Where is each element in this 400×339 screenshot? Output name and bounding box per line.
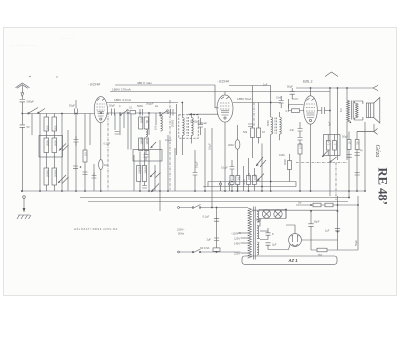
wire AVC dash-dot line left [21,113,23,115]
antenna [16,76,31,93]
svg-text:1MΩ: 1MΩ [279,153,285,157]
wire mid links [140,152,145,192]
svg-text:125V: 125V [234,236,240,240]
svg-text:5000: 5000 [53,140,57,146]
wire left vertical 68 [67,130,69,191]
resistor field coil b [325,203,333,207]
svg-text:25000: 25000 [247,172,251,180]
wire transformer links [347,88,363,160]
trimmer arrows osc [58,144,69,184]
svg-text:4µF: 4µF [328,121,332,126]
svg-text:0,3: 0,3 [84,152,88,156]
switch wave contact mid [120,110,129,116]
box tone network [324,135,341,156]
wire right vertical 349 [348,132,350,198]
wire tube2 top left [224,92,226,95]
svg-text:2µF: 2µF [207,238,212,242]
wire left vertical 76 [75,100,77,191]
svg-text:20000: 20000 [170,119,174,127]
wire right bottom vertical 358 [357,196,359,250]
wire AF ends [208,182,296,187]
tube ECH4 first [94,97,107,123]
lamp dial 2 [274,210,282,218]
capacitor 8uF heater [266,228,275,240]
chevron mark top [325,72,338,77]
wire bottom line y250 [311,249,358,251]
power transformer heater 6.3V [257,226,259,239]
wire heater net [260,240,282,250]
svg-text:16µF: 16µF [314,220,320,224]
svg-text:1000: 1000 [253,174,257,180]
wire det mid vertical [289,99,304,108]
svg-text:50pF: 50pF [69,104,75,108]
tap arrow [237,232,241,234]
wire 4000 links [289,154,291,182]
wire component row line [22,112,176,115]
wire heater links [257,210,286,239]
wire det drops [253,86,259,159]
wire IFT3 links [270,102,280,141]
power transformer HT secondary [257,212,259,222]
node 40 bus [39,190,41,192]
output transformer secondary [356,103,359,118]
node EBL1 bus [310,190,312,192]
svg-text:50k: 50k [243,130,248,134]
resistor tone b [333,141,337,151]
wire short verticals band [115,113,124,135]
svg-text:220V: 220V [234,251,240,255]
svg-text:1M: 1M [104,163,108,167]
coil osc secondary [52,138,57,153]
label 220V 50Hz [177,228,185,236]
resistor det 253 [252,174,256,185]
svg-text:480 V max: 480 V max [137,81,152,85]
wire 205 vertical [204,128,206,191]
coil IFT1 left loops [161,116,163,132]
IFT1 primary loops [182,118,184,136]
wire row drops [149,113,156,135]
svg-text:10000: 10000 [140,137,144,145]
trimmer arrows mid low [150,171,161,178]
wire 149 drop [148,150,150,191]
svg-text:50µF: 50µF [342,135,348,139]
wire coil links [46,114,54,139]
wire 480V max top line [115,85,271,117]
svg-text:5000: 5000 [137,104,143,108]
wire lamp rail bottom [259,218,286,220]
wire dashdot vertical 336 [335,163,337,201]
tube AZ1 rectifier [289,234,302,247]
wire AF line upper [208,181,296,183]
box padder mid [133,150,162,162]
svg-text:5µ: 5µ [360,148,363,152]
IFT1 secondary loops [191,118,193,136]
coil 20000 mid [142,166,147,182]
wire speaker return [357,131,374,133]
IF transformer 1 box dashed [179,115,198,138]
svg-text:0,1µF: 0,1µF [203,215,210,219]
svg-text:5000: 5000 [266,120,270,126]
trimmer arrow mid [151,142,157,148]
coil antenna primary [44,117,49,131]
svg-text:50Hz: 50Hz [178,232,185,236]
wire left vertical 62 [61,114,63,192]
capacitor 2uF mains [207,238,220,242]
svg-text:1µF: 1µF [325,229,330,233]
svg-text:500pF: 500pF [27,100,35,104]
svg-text:1000: 1000 [145,138,149,144]
node band dots [119,112,169,114]
wire det down 271 [270,140,272,191]
ghost dot [56,76,57,77]
wire grid line tube2 [188,113,218,115]
svg-text:763: 763 [318,253,323,257]
wire mains cap vertical [216,208,218,253]
svg-text:2w: 2w [298,201,301,205]
wire osc links [46,153,54,192]
resistor cathode tube1 [99,160,108,170]
wire right bottom vertical 337 [337,196,339,250]
svg-text:· ECH4: · ECH4 [88,83,100,87]
svg-text:2µF: 2µF [272,243,277,247]
switch band contacts [28,108,45,115]
svg-text:0,7M: 0,7M [299,143,303,149]
output transformer primary coil [347,100,350,122]
svg-text:50000: 50000 [138,166,142,174]
wire vertical 195 [194,150,196,191]
svg-text:· ECH4: · ECH4 [217,80,229,84]
capacitor 50uF [287,85,298,100]
wire feedback dash line [296,162,347,164]
svg-text:EBL.1: EBL.1 [303,80,313,84]
capacitor 0.1uF det [221,160,234,175]
wire third bus dashed [88,201,348,203]
svg-text:5·10: 5·10 [231,174,235,180]
wire 262 vertical [261,144,263,192]
wire tube1 cathode down [100,123,102,191]
wire smoothing line y205 [296,201,358,205]
coil antenna secondary [52,117,57,131]
resistor row small [129,106,136,114]
wire left vertical 85 [84,114,86,192]
switch tone [330,157,337,163]
capacitor 10nF [276,96,284,109]
wire antenna down [21,97,23,99]
wire 2M links [237,125,239,191]
wire 180V/170mA HT line [110,91,330,93]
resistor field coil a [313,203,321,207]
svg-text:4000: 4000 [283,159,287,165]
capacitor row 140 [140,109,143,116]
capacitor antenna low [20,125,30,129]
wire antenna to bus [21,127,23,191]
svg-text:0,3: 0,3 [286,109,290,113]
wire lamp rail top [259,210,286,212]
coil shortwave a [44,168,49,185]
wire tube2 cathode [224,122,226,191]
scanned page area [4,28,397,296]
svg-text:0,1µF: 0,1µF [104,142,111,146]
power transformer rectifier winding [257,242,259,255]
capacitor right 357 low [355,173,360,176]
tap 220V [234,251,249,255]
node dots mid [139,190,169,192]
svg-text:RE 48’: RE 48’ [376,168,390,205]
svg-text:1,4: 1,4 [327,141,331,145]
capacitor 1uF right [325,228,340,232]
wire band verticals 128 [128,113,131,150]
wire dashdot 254 [253,103,255,127]
resistor det 237 [236,176,241,185]
capacitor right 357 [355,153,360,156]
svg-text:4nF: 4nF [290,128,295,132]
wire ground drop [23,198,25,208]
svg-text:180V 4,7mA: 180V 4,7mA [114,98,132,102]
capacitor left 85 [83,172,88,175]
fuse SZ 0.5A [200,246,220,251]
wire heater to lamps [260,230,268,232]
svg-text:1nF: 1nF [263,83,268,87]
resistor bottom 763 [317,248,327,257]
resistor 2M oval [228,140,240,150]
svg-text:AZ 1: AZ 1 [288,258,299,263]
wire 212 vertical [211,128,213,208]
resistor anode EBL1 [286,105,304,114]
svg-text:─── ──: ─── ── [59,37,75,41]
wire right vertical 365 [364,122,366,191]
node 330 [329,110,331,112]
capacitor 50pF row [69,104,78,115]
ghost smudge marks top [9,37,75,48]
node dots bottom right [285,204,359,232]
capacitor 2uF heater [266,243,277,250]
wire grid feed heavy [176,104,178,155]
capacitor 0.1 EBL1 [298,138,303,141]
node extra dots [100,112,238,208]
wire AF line lower [203,186,296,188]
box oscillator coils [39,136,63,158]
tube ECH4 second [217,95,233,122]
svg-text:Géza: Géza [374,145,381,158]
wire AZ1 links [282,210,301,250]
wire output top [330,88,338,196]
wire mains bottom line [178,251,241,253]
resistor 50k tube2 [243,128,255,138]
capacitor mid bottom [142,186,147,189]
node dots left [61,113,86,192]
switch mains top [192,205,201,209]
resistor right 357 [355,140,359,150]
speaker [366,98,380,124]
svg-text:20000: 20000 [53,169,57,177]
svg-text:0,1: 0,1 [236,176,240,180]
wire HT secondary to AZ1 [257,212,259,223]
svg-text:0,1µF: 0,1µF [165,138,172,142]
resistor EBL1 grid leak [298,143,303,154]
capacitor 0.005uF left tube2 [190,118,203,135]
wire tone links [328,135,334,156]
tap 125V [234,236,249,240]
svg-text:200: 200 [45,125,49,130]
svg-text:2000: 2000 [140,117,144,123]
wire vertical 90 [89,114,91,146]
IFT1 core dashes [187,117,188,136]
wire screen line y88 [296,85,378,90]
node tube2 bus [224,190,226,192]
capacitor band small [115,132,120,135]
resistor 0.3M left [83,150,88,162]
svg-text:30µµF: 30µµF [146,102,154,106]
resistor 1000 mid [144,138,149,151]
wire antenna cap to row [21,102,23,125]
coil IF1 primary pair [139,117,144,129]
output transformer core [352,101,354,120]
gang arrow det [257,174,264,182]
wire 160 drop [159,140,161,211]
wire right vertical 357 [356,132,358,192]
capacitor in box [144,150,149,162]
resistor 10000 mid [139,137,144,151]
heater pins tube2 [219,181,230,191]
svg-text:~110V: ~110V [231,231,239,235]
capacitor 4nF EBL1 grid [290,122,303,137]
banner AZ1 [242,256,337,264]
tap 110V [231,231,249,235]
wire verticals mid [134,135,175,191]
capacitor 170 [171,109,174,116]
wire IFT1 connections [181,102,192,155]
wire second bus [80,197,350,199]
wire vertical 243 [243,166,245,191]
wire det resistor links [232,158,254,191]
capacitor det 255 [248,124,253,127]
svg-text:20000: 20000 [45,169,49,177]
svg-text:145V: 145V [234,241,240,245]
svg-text:220V~: 220V~ [177,228,185,232]
coil loops IF1 [146,130,148,137]
wire transformer bottom [248,257,249,259]
tap 145V [234,241,249,245]
wire left vertical 32 [31,114,33,136]
power transformer core [253,207,255,260]
svg-text:5000: 5000 [242,179,246,185]
node mains dots [216,207,218,253]
wire EBL1 cathode [310,124,312,191]
gang arrow mid [151,184,159,193]
resistor tone a [326,141,330,151]
node antenna bus [21,190,23,192]
svg-text:50µF: 50µF [287,85,293,89]
svg-text:2000: 2000 [45,140,49,146]
node dots det [231,190,272,192]
svg-text:500: 500 [53,125,57,130]
IF transformer 3 loops [266,117,281,134]
capacitor 75 mid [73,166,81,168]
terminal circle [23,196,26,199]
svg-text:2MΩ: 2MΩ [228,143,234,147]
detector volume pot arrows [256,157,266,167]
tube EBL1 [304,96,318,124]
resistor det 232 [230,174,235,184]
coil shortwave b [52,168,57,185]
svg-text:50pF: 50pF [109,104,115,108]
node 300 bus [299,190,301,192]
capacitor 500pF antenna [20,100,35,104]
wire dashdot gang line [169,100,171,190]
capacitor 16uF right [308,211,320,250]
svg-text:20000: 20000 [143,166,147,174]
capacitor cathode tube1 [92,164,97,191]
resistor right 349 [347,140,351,150]
svg-text:── ──── ───: ── ──── ─── [9,44,37,48]
node dots right [348,190,366,198]
trimmer arrow tone [322,151,328,157]
capacitor at 195 [193,173,198,176]
wire AZ1 output to filter [301,239,337,241]
wire tube2 anode right [233,102,281,104]
wire mains top line [178,207,248,209]
wire AVC dash vertical 108 [107,113,109,192]
coil osc primary [44,138,49,153]
resistor 10000 tube2 [257,128,266,138]
terminal Y below speaker [357,124,378,135]
wire anode line tube1 [107,102,178,104]
wire left vertical 40 [39,114,41,192]
power transformer primary [248,208,251,258]
resistor det 248 [247,172,252,184]
wire EBL1 grid links [299,140,301,191]
antenna arrow open [21,93,24,97]
node tube1 bus [100,190,102,192]
trimmer arrowheads [58,148,61,183]
svg-text:0,1µF: 0,1µF [221,166,228,170]
lamp dial 1 [262,210,270,219]
svg-text:0,1µF: 0,1µF [208,143,212,150]
wire EBL1 top [310,88,312,96]
svg-text:185V 5mA: 185V 5mA [237,97,252,101]
svg-text:100: 100 [153,125,157,130]
svg-text:180V/ 170mA: 180V/ 170mA [112,88,132,92]
switch row right [160,110,169,116]
capacitor EBL1 anode [317,107,330,114]
capacitor padder 76 [74,136,79,146]
switch mains bottom [192,249,201,253]
wire heater line bottom [252,209,338,211]
coil 50000 mid [137,166,142,182]
svg-text:SZ 0,5A: SZ 0,5A [200,246,210,250]
svg-text:100µµF: 100µµF [198,121,207,125]
capacitor right 349 [347,155,352,158]
resistor 4000 AF [283,159,292,170]
node transformer bottom [350,121,352,123]
capacitor 50pF tube1 anode [112,109,115,116]
svg-text:3,1: 3,1 [129,106,133,110]
wire chassis bus [22,190,365,192]
ground [17,208,31,219]
capacitor 0.1uF mains [203,215,220,222]
node AF dots [231,181,272,188]
coil IF1 primary pair b [144,117,149,129]
svg-text:50µF: 50µF [354,240,358,246]
svg-text:6,3: 6,3 [339,108,343,112]
